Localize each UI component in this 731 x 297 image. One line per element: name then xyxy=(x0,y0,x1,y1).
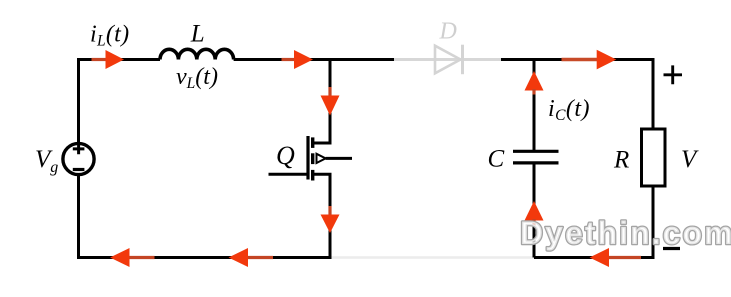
svg-text:L: L xyxy=(190,21,205,48)
minus sign output xyxy=(663,247,680,250)
svg-text:iL(t): iL(t) xyxy=(90,22,129,50)
inductor L xyxy=(160,49,234,59)
arrow iL tail xyxy=(92,58,108,61)
MOSFET body arrow xyxy=(317,154,326,163)
arrow on drain tail xyxy=(328,87,331,97)
MOSFET gate bar xyxy=(306,136,309,180)
arrow on drain head (down) xyxy=(321,96,340,116)
svg-text:vL(t): vL(t) xyxy=(176,64,218,92)
arrow before MOSFET node head (right) xyxy=(294,50,313,69)
wire: gray segment through diode (off branch) xyxy=(394,58,501,61)
MOSFET channel top stub xyxy=(311,137,314,148)
resistor R xyxy=(642,129,666,186)
capacitor C bottom plate xyxy=(513,161,559,164)
MOSFET Q drain wire xyxy=(313,60,330,144)
wire: source bottom down and right along bottom to MOSFET source xyxy=(79,175,332,258)
diode cathode bar xyxy=(461,45,464,74)
wire: bottom-right from capacitor node to resistor xyxy=(534,186,653,258)
svg-text:D: D xyxy=(439,19,457,45)
arrow capacitor top tail xyxy=(532,89,535,95)
diode D (off, gray) xyxy=(435,46,461,74)
plus sign output xyxy=(664,65,683,84)
MOSFET gate lead xyxy=(269,173,309,176)
svg-text:Dyethin.com: Dyethin.com xyxy=(520,215,731,251)
MOSFET channel middle stub xyxy=(311,153,314,164)
minus sign inside source xyxy=(73,168,85,171)
voltage source Vg xyxy=(63,143,94,174)
arrow capacitor bottom tail xyxy=(532,219,535,226)
arrow bottom-left A tail xyxy=(128,256,155,259)
MOSFET source wire xyxy=(313,174,330,257)
MOSFET channel bottom stub xyxy=(311,170,314,181)
wire: diode cathode to output node and right to + corner xyxy=(501,60,653,130)
arrow capacitor bottom head (up) xyxy=(525,201,544,221)
arrow bottom-left B tail xyxy=(247,256,274,259)
svg-text:C: C xyxy=(488,146,505,173)
arrow bottom-right tail xyxy=(608,256,641,259)
arrow on source head (down) xyxy=(321,215,340,234)
arrow bottom-right head (left) xyxy=(590,248,610,267)
wire: inductor to diode anode xyxy=(234,58,394,61)
arrow iL head (right) xyxy=(106,50,125,69)
wire: top-left segment from source up and right to diode xyxy=(79,60,161,144)
arrow bottom-left A head (left) xyxy=(110,248,130,267)
svg-text:R: R xyxy=(613,147,629,174)
arrow before MOSFET node tail xyxy=(282,58,297,61)
arrow on source tail xyxy=(328,206,331,217)
wire: gray bottom segment (off branch) xyxy=(332,256,535,258)
arrow capacitor top head (up) xyxy=(525,71,544,91)
arrow top-right head (right) xyxy=(597,50,617,70)
capacitor branch lower wire xyxy=(533,164,536,258)
capacitor branch upper wire xyxy=(533,60,536,151)
svg-text:Q: Q xyxy=(276,141,295,170)
arrow top-right tail xyxy=(562,58,599,61)
plus sign inside source xyxy=(73,144,85,155)
svg-text:iC(t): iC(t) xyxy=(548,96,590,124)
capacitor C top plate xyxy=(513,150,559,153)
arrow bottom-left B head (left) xyxy=(229,248,249,267)
MOSFET body lead xyxy=(326,157,352,160)
